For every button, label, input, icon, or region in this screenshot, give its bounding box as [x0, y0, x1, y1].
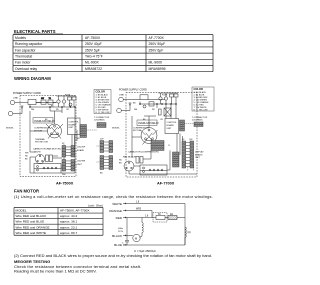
svg-text:WIRING DIAGRAM: WIRING DIAGRAM — [14, 76, 51, 81]
svg-text:ML-9009: ML-9009 — [149, 61, 162, 65]
svg-text:approx. 23.1: approx. 23.1 — [60, 225, 77, 229]
svg-text:8. YL YELLOW: 8. YL YELLOW — [96, 112, 110, 114]
svg-text:FAN MOTOR: FAN MOTOR — [14, 189, 39, 194]
svg-text:1.8: 1.8 — [136, 201, 140, 203]
svg-text:approx. 38.1: approx. 38.1 — [60, 220, 77, 224]
svg-text:CONTROL: CONTROL — [167, 122, 178, 124]
svg-text:(unit : Ohm): (unit : Ohm) — [88, 203, 103, 207]
svg-text:TR: TR — [49, 98, 52, 100]
svg-text:approx. 80.7: approx. 80.7 — [60, 231, 77, 235]
svg-text:Thermostat: Thermostat — [15, 54, 32, 58]
svg-text:WH: WH — [134, 109, 138, 111]
svg-text:250V 40µF: 250V 40µF — [85, 42, 102, 46]
svg-text:AF-7500X, AF-7700X: AF-7500X, AF-7700X — [60, 209, 89, 213]
svg-text:BK: BK — [133, 102, 136, 104]
svg-text:ORANGE: ORANGE — [109, 209, 122, 213]
svg-text:250V 50µF: 250V 50µF — [149, 42, 166, 46]
svg-text:Reading must be more than 1 MΩ: Reading must be more than 1 MΩ at DC 500… — [14, 269, 97, 274]
svg-text:10P: 10P — [100, 138, 104, 140]
svg-text:BOARD: BOARD — [69, 123, 77, 126]
svg-text:UNIT: UNIT — [167, 128, 173, 130]
svg-text:OR: OR — [66, 109, 69, 111]
svg-text:C: C — [122, 242, 124, 244]
svg-text:COLOR: COLOR — [194, 87, 203, 91]
svg-text:POWER SUPPLY CORD: POWER SUPPLY CORD — [119, 88, 147, 91]
svg-text:COMPRESSOR: COMPRESSOR — [34, 128, 50, 130]
svg-text:10P: 10P — [189, 139, 193, 141]
svg-text:RD: RD — [152, 109, 155, 111]
svg-text:(A): (A) — [188, 231, 191, 234]
svg-text:T-CONNECTOR: T-CONNECTOR — [94, 117, 110, 119]
svg-text:MODEL: MODEL — [6, 128, 15, 130]
svg-text:WR3: WR3 — [136, 208, 142, 210]
svg-text:Wire RED and WHITE: Wire RED and WHITE — [16, 231, 47, 235]
svg-text:WH: WH — [62, 174, 66, 176]
svg-text:FAN MOTOR: FAN MOTOR — [123, 155, 136, 158]
svg-text:SW: SW — [41, 98, 44, 100]
svg-text:UNIT: UNIT — [69, 127, 75, 129]
svg-text:M: M — [135, 236, 137, 240]
svg-text:approx. 44.2: approx. 44.2 — [60, 214, 77, 218]
svg-text:CN-FM: CN-FM — [34, 152, 41, 154]
svg-text:Wire RED and ORANGE: Wire RED and ORANGE — [16, 225, 50, 229]
svg-text:LINE: LINE — [119, 94, 124, 96]
svg-text:CN-DISP: CN-DISP — [77, 147, 86, 149]
svg-text:AF-7700X: AF-7700X — [149, 36, 165, 40]
svg-text:4Ω: 4Ω — [170, 214, 173, 216]
svg-text:WH: WH — [31, 109, 35, 111]
svg-text:1.6: 1.6 — [145, 215, 149, 217]
svg-text:MODEL: MODEL — [112, 128, 121, 130]
svg-text:MRA98722: MRA98722 — [85, 67, 102, 71]
svg-text:Running capacitor: Running capacitor — [15, 42, 43, 46]
svg-text:Fan motor: Fan motor — [15, 61, 31, 65]
svg-text:Wire RED and BLUE: Wire RED and BLUE — [16, 220, 45, 224]
svg-text:WHITE: WHITE — [112, 202, 122, 206]
svg-text:ML-900X: ML-900X — [85, 61, 99, 65]
svg-text:DISPLAY: DISPLAY — [195, 151, 204, 154]
svg-text:COLOR: COLOR — [96, 90, 105, 94]
svg-text:MRA98995: MRA98995 — [149, 67, 166, 71]
svg-text:COMPRESSOR: COMPRESSOR — [133, 127, 149, 129]
svg-text:BLUE: BLUE — [114, 243, 122, 247]
svg-text:BK: BK — [25, 159, 28, 161]
svg-text:TAG-4 75°F: TAG-4 75°F — [85, 54, 103, 58]
svg-text:RD: RD — [56, 109, 59, 111]
svg-text:8. YL YELLOW: 8. YL YELLOW — [194, 109, 208, 111]
svg-text:Fan capacitor: Fan capacitor — [15, 48, 36, 52]
svg-text:(2) Connect RED and BLACK wire: (2) Connect RED and BLACK wires to prope… — [14, 253, 212, 258]
svg-text:THERMAL: THERMAL — [35, 138, 46, 141]
svg-text:250V 6µF: 250V 6µF — [149, 48, 164, 52]
svg-text:BK: BK — [119, 163, 122, 165]
svg-text:(CN-HEAT): (CN-HEAT) — [192, 119, 203, 122]
svg-text:BOARD: BOARD — [167, 124, 175, 127]
svg-text:BOARD: BOARD — [195, 153, 203, 156]
svg-text:PROTECTOR: PROTECTOR — [35, 142, 49, 144]
svg-text:LINE: LINE — [13, 97, 18, 99]
svg-text:T-CONNECTOR: T-CONNECTOR — [192, 117, 208, 119]
svg-text:OR: OR — [160, 119, 163, 121]
svg-text:(1) Using a volt-ohm-meter set: (1) Using a volt-ohm-meter set on resist… — [14, 194, 213, 199]
svg-text:115V: 115V — [118, 231, 123, 233]
svg-text:4P: 4P — [182, 139, 185, 141]
svg-text:MOTOR: MOTOR — [133, 130, 142, 132]
svg-text:MOTOR: MOTOR — [34, 130, 43, 132]
svg-text:BOARD: BOARD — [77, 149, 85, 152]
svg-text:CAPACITOR (COMPRESSOR): CAPACITOR (COMPRESSOR) — [128, 151, 159, 154]
svg-text:FUSE: FUSE — [65, 94, 71, 96]
svg-text:CN-PWR: CN-PWR — [77, 161, 86, 163]
svg-text:BLACK: BLACK — [112, 234, 122, 238]
svg-text:BK: BK — [100, 173, 103, 175]
svg-text:RD: RD — [119, 160, 122, 162]
svg-text:YL: YL — [168, 145, 170, 147]
svg-text:AF-7500X: AF-7500X — [56, 182, 74, 186]
svg-text:GN: GN — [77, 138, 80, 140]
svg-text:POWER SUPPLY CORD: POWER SUPPLY CORD — [13, 92, 41, 95]
svg-text:250V 5µF: 250V 5µF — [85, 48, 100, 52]
svg-text:Overload relay: Overload relay — [15, 67, 37, 71]
svg-text:OVERLOAD RELAY: OVERLOAD RELAY — [138, 122, 159, 125]
svg-text:ELECTRICAL PARTS: ELECTRICAL PARTS — [14, 29, 56, 34]
svg-text:WH: WH — [25, 153, 29, 155]
svg-text:UNIT: UNIT — [195, 157, 201, 159]
svg-text:Models: Models — [15, 36, 26, 40]
svg-text:RED: RED — [116, 216, 123, 220]
svg-text:UNIT: UNIT — [77, 164, 82, 166]
svg-text:CONTROL: CONTROL — [69, 122, 80, 124]
svg-text:60Hz: 60Hz — [118, 228, 123, 230]
svg-text:MODEL: MODEL — [16, 209, 27, 213]
svg-text:RD: RD — [25, 156, 28, 158]
svg-text:CAPACITOR (FAN MOTOR): CAPACITOR (FAN MOTOR) — [33, 147, 61, 150]
svg-text:(CN-HEAT): (CN-HEAT) — [94, 119, 105, 122]
svg-text:AF-7500X: AF-7500X — [85, 36, 101, 40]
svg-text:Wire RED and BLACK: Wire RED and BLACK — [16, 214, 48, 218]
svg-text:AF-7700X: AF-7700X — [157, 182, 175, 186]
svg-text:FUSE: FUSE — [162, 94, 168, 96]
